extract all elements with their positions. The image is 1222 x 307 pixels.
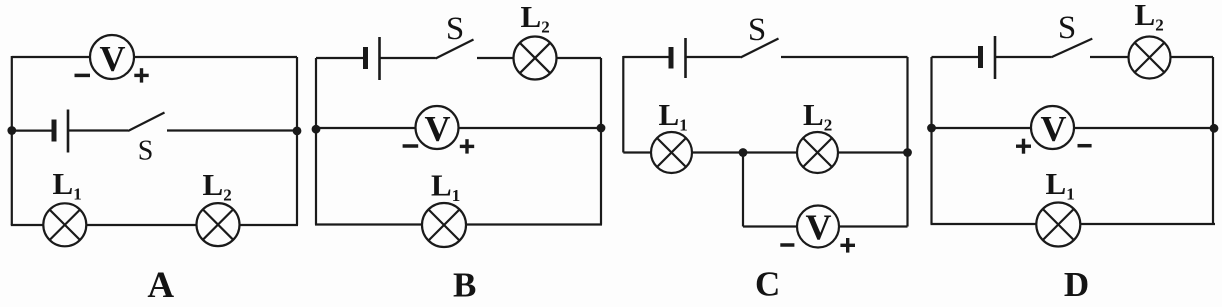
svg-text:S: S	[1058, 10, 1076, 46]
wire B right vertical	[600, 58, 602, 225]
wire A right vertical	[296, 57, 298, 225]
wire C switch to right	[781, 56, 908, 58]
svg-text:V: V	[1041, 109, 1067, 149]
wire B left vertical	[315, 58, 317, 225]
voltmeter C	[797, 206, 839, 248]
svg-text:S: S	[138, 136, 154, 167]
junction dot A right	[293, 126, 302, 135]
label plus (voltmeter A)	[134, 68, 148, 82]
svg-text:D: D	[1064, 265, 1089, 304]
battery B negative plate	[363, 47, 368, 69]
lamp L2 (A)	[197, 203, 240, 246]
battery D positive plate	[994, 36, 997, 79]
switch S (B)	[436, 40, 474, 59]
wire A left vertical	[11, 56, 13, 225]
svg-text:V: V	[806, 207, 832, 247]
svg-text:S: S	[748, 12, 766, 48]
wire C top rail left	[623, 56, 668, 58]
svg-text:S: S	[446, 11, 464, 47]
lamp L1 (D)	[1036, 203, 1080, 247]
lamp L1 (B)	[422, 203, 466, 247]
switch S (D)	[1051, 39, 1092, 58]
wire A middle rail left	[12, 130, 52, 132]
label plus (voltmeter B)	[460, 139, 474, 153]
wire B battery to switch	[380, 57, 436, 59]
battery C negative plate	[669, 47, 674, 69]
wire C left vertical	[622, 56, 624, 153]
lamp L2 (C)	[797, 132, 838, 173]
wire D left vertical	[930, 57, 932, 224]
wire D middle rail	[932, 127, 1214, 129]
wire D switch to lamp	[1090, 56, 1129, 58]
junction dot B left	[312, 125, 321, 134]
switch S (C)	[741, 39, 779, 58]
junction dot B right	[597, 124, 606, 133]
junction dot C middle	[739, 148, 748, 157]
svg-text:C: C	[755, 265, 780, 304]
label plus (voltmeter D)	[1016, 139, 1031, 154]
battery A positive plate	[67, 110, 70, 153]
voltmeter B	[416, 106, 459, 149]
wire A top rail	[12, 56, 297, 58]
wire C battery to switch	[686, 56, 741, 58]
junction dot D right	[1210, 124, 1219, 133]
svg-text:A: A	[147, 265, 174, 306]
label minus (voltmeter A)	[75, 74, 91, 78]
lamp L2 (D)	[1129, 37, 1171, 79]
battery B positive plate	[378, 37, 381, 80]
battery D negative plate	[978, 46, 983, 68]
wire B top rail left	[316, 57, 363, 59]
label minus (voltmeter C)	[780, 243, 794, 247]
wire A battery to switch	[68, 129, 128, 131]
voltmeter A	[90, 35, 134, 79]
wire C branch vertical	[742, 153, 744, 227]
wire B switch to lamp	[477, 57, 514, 59]
lamp L1 (A)	[43, 203, 86, 246]
svg-text:V: V	[100, 39, 126, 79]
wire B lamp to right	[557, 57, 602, 59]
label plus (voltmeter C)	[840, 238, 855, 253]
wire D lamp to right	[1171, 56, 1214, 58]
wire D right vertical	[1212, 57, 1214, 224]
junction dot C right	[903, 148, 912, 157]
wire A switch to right	[167, 129, 297, 131]
wire A bottom rail	[11, 224, 298, 226]
wire B middle rail	[316, 127, 601, 129]
wire C right vertical	[906, 57, 908, 227]
voltmeter D	[1031, 106, 1074, 149]
battery A negative plate	[52, 120, 57, 142]
junction dot D left	[927, 124, 936, 133]
svg-text:V: V	[425, 109, 451, 149]
wire B bottom rail	[315, 223, 602, 225]
svg-text:B: B	[453, 266, 476, 305]
label minus (voltmeter B)	[403, 144, 419, 148]
battery C positive plate	[684, 38, 687, 78]
wire C middle rail	[623, 151, 907, 153]
lamp L2 (B)	[514, 37, 557, 80]
wire D battery to switch	[995, 56, 1051, 58]
lamp L1 (C)	[651, 132, 692, 173]
wire D bottom rail	[931, 223, 1216, 225]
junction dot A left	[7, 126, 16, 135]
wire D top rail left	[932, 56, 979, 58]
switch S (A)	[128, 113, 165, 132]
wire C branch horizontal	[743, 225, 908, 227]
label minus (voltmeter D)	[1078, 144, 1092, 148]
